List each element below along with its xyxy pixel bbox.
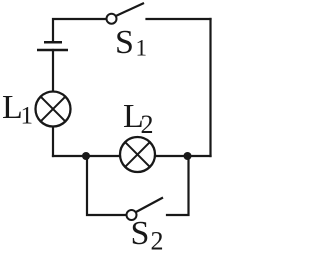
svg-text:2: 2	[151, 227, 164, 253]
node A junction dot left	[82, 152, 90, 160]
switch S2	[127, 198, 164, 221]
svg-text:2: 2	[141, 110, 154, 139]
label S2	[131, 215, 164, 253]
wire lamp L1 down to middle node	[52, 125, 54, 156]
lamp L1	[36, 92, 71, 127]
wire top-right from S1 to right side	[147, 18, 211, 20]
svg-text:1: 1	[136, 36, 148, 61]
wire top from battery to S1	[53, 19, 107, 42]
svg-text:S: S	[131, 215, 150, 252]
wire bottom-right from S2 gap up to right node	[167, 156, 189, 215]
lamp L2	[120, 137, 155, 172]
label L1	[2, 89, 33, 130]
svg-text:S: S	[115, 24, 134, 61]
wire middle horizontal through L2	[53, 155, 211, 157]
wire battery to lamp L1	[52, 50, 54, 93]
node B junction dot right	[184, 152, 192, 160]
wire left branch down to S2	[87, 156, 126, 215]
label L2	[123, 98, 154, 139]
battery B1	[37, 42, 68, 50]
label S1	[115, 24, 147, 61]
svg-text:1: 1	[21, 103, 34, 130]
switch S1	[107, 3, 145, 24]
wire right side down	[209, 19, 211, 156]
